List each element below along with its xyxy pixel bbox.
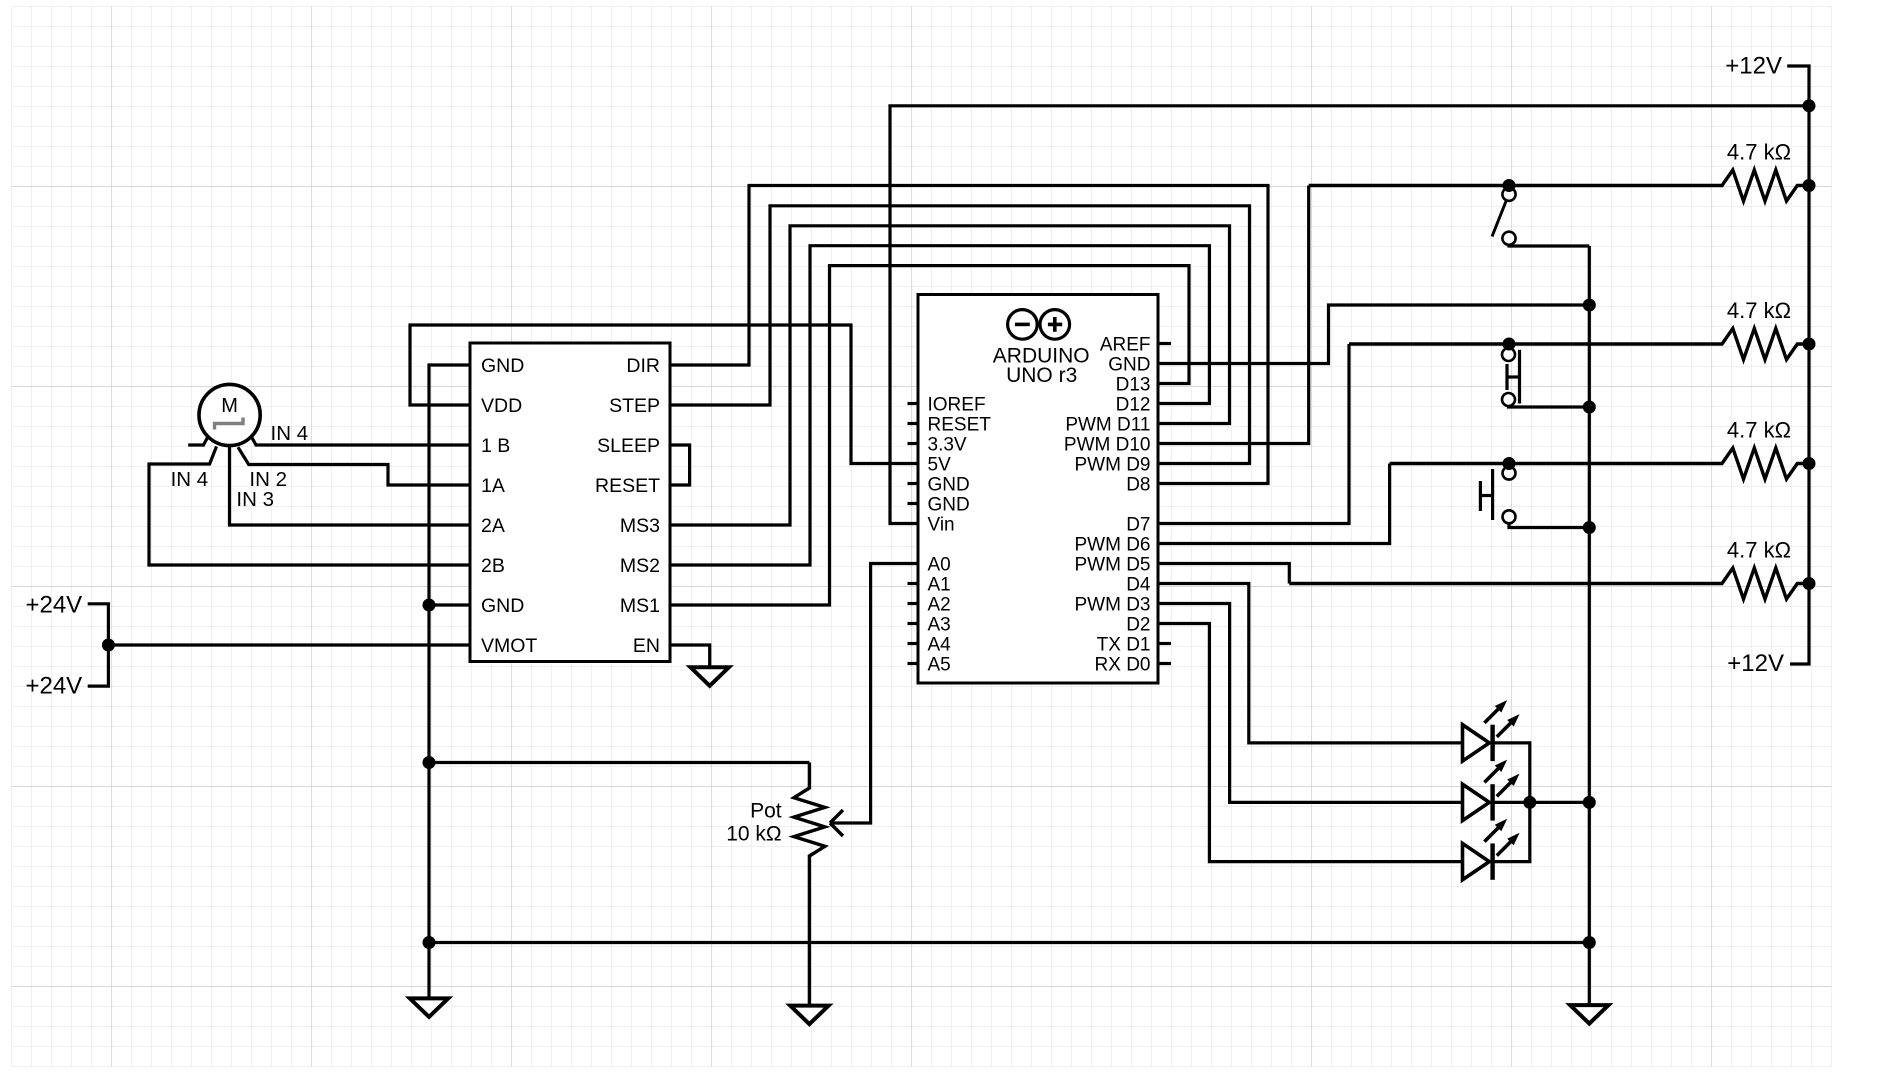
svg-text:A0: A0 xyxy=(928,555,951,576)
svg-text:D4: D4 xyxy=(1126,575,1151,596)
svg-text:A1: A1 xyxy=(928,575,951,596)
svg-text:D7: D7 xyxy=(1126,515,1150,536)
svg-text:4.7 kΩ: 4.7 kΩ xyxy=(1727,418,1791,443)
svg-text:A4: A4 xyxy=(928,635,952,656)
svg-text:TX D1: TX D1 xyxy=(1097,635,1151,656)
svg-text:MS3: MS3 xyxy=(620,515,660,537)
svg-text:D12: D12 xyxy=(1116,395,1151,416)
svg-text:D8: D8 xyxy=(1126,475,1150,496)
svg-text:PWM D6: PWM D6 xyxy=(1075,535,1151,556)
svg-text:IN 3: IN 3 xyxy=(236,488,274,511)
svg-text:+12V: +12V xyxy=(1727,650,1784,677)
svg-text:5V: 5V xyxy=(928,455,952,476)
svg-text:RESET: RESET xyxy=(928,415,992,436)
svg-text:VMOT: VMOT xyxy=(481,635,537,657)
svg-text:10 kΩ: 10 kΩ xyxy=(726,823,781,846)
svg-text:GND: GND xyxy=(481,355,524,377)
svg-text:A2: A2 xyxy=(928,595,951,616)
svg-text:PWM D11: PWM D11 xyxy=(1065,415,1150,436)
svg-text:4.7 kΩ: 4.7 kΩ xyxy=(1727,298,1791,323)
svg-text:UNO r3: UNO r3 xyxy=(1006,364,1077,387)
svg-text:STEP: STEP xyxy=(609,395,660,417)
svg-text:1 B: 1 B xyxy=(481,435,510,457)
svg-text:MS1: MS1 xyxy=(620,595,660,617)
svg-text:Pot: Pot xyxy=(750,800,782,823)
svg-text:PWM D9: PWM D9 xyxy=(1075,455,1151,476)
svg-text:RX D0: RX D0 xyxy=(1095,655,1151,676)
svg-text:GND: GND xyxy=(928,475,970,496)
svg-text:IN 4: IN 4 xyxy=(271,422,309,445)
svg-text:PWM D3: PWM D3 xyxy=(1075,595,1151,616)
svg-text:3.3V: 3.3V xyxy=(928,435,967,456)
svg-text:+12V: +12V xyxy=(1725,53,1782,80)
svg-text:1A: 1A xyxy=(481,475,505,497)
svg-text:SLEEP: SLEEP xyxy=(597,435,660,457)
svg-text:GND: GND xyxy=(481,595,524,617)
svg-text:D2: D2 xyxy=(1126,615,1150,636)
svg-text:2A: 2A xyxy=(481,515,505,537)
svg-text:DIR: DIR xyxy=(626,355,660,377)
svg-text:GND: GND xyxy=(928,495,970,516)
svg-text:A5: A5 xyxy=(928,655,951,676)
svg-text:IOREF: IOREF xyxy=(928,395,986,416)
svg-text:A3: A3 xyxy=(928,615,951,636)
svg-text:PWM D5: PWM D5 xyxy=(1075,555,1151,576)
svg-text:4.7 kΩ: 4.7 kΩ xyxy=(1727,538,1791,563)
svg-text:GND: GND xyxy=(1108,355,1150,376)
svg-text:VDD: VDD xyxy=(481,395,522,417)
svg-text:AREF: AREF xyxy=(1100,335,1151,356)
svg-text:IN 4: IN 4 xyxy=(171,468,209,491)
svg-text:RESET: RESET xyxy=(595,475,660,497)
svg-text:D13: D13 xyxy=(1116,375,1151,396)
svg-text:MS2: MS2 xyxy=(620,555,660,577)
svg-text:4.7 kΩ: 4.7 kΩ xyxy=(1727,140,1791,165)
svg-text:+24V: +24V xyxy=(25,591,82,618)
svg-text:+24V: +24V xyxy=(25,672,82,699)
svg-text:M: M xyxy=(221,395,238,417)
svg-text:EN: EN xyxy=(633,635,660,657)
svg-text:2B: 2B xyxy=(481,555,505,577)
svg-text:Vin: Vin xyxy=(928,515,955,536)
svg-text:PWM D10: PWM D10 xyxy=(1064,435,1151,456)
